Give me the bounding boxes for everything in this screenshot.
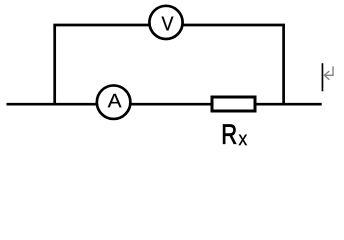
voltmeter V (circle symbol with letter V) <box>149 6 182 39</box>
wire: bottom main conductor (left lead through ammeter and Rx to right lead) <box>7 103 322 106</box>
wire: left riser of voltmeter branch <box>53 25 56 104</box>
wire: right riser of voltmeter branch <box>282 25 285 104</box>
text cursor (insertion bar) <box>321 63 323 91</box>
label Rx: subscript x <box>239 135 247 145</box>
wire: top run of voltmeter branch <box>53 24 285 27</box>
ammeter A (circle symbol with letter A) <box>97 85 131 119</box>
label Rx: letter R <box>223 124 236 143</box>
resistor Rx (rectangular body) <box>212 97 255 111</box>
line-break formatting mark (gray return arrow) <box>324 66 333 79</box>
